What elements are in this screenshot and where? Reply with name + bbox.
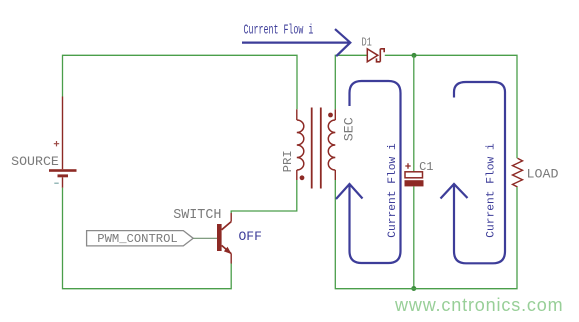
current loop 1 <box>336 81 401 263</box>
svg-text:OFF: OFF <box>238 229 261 244</box>
wire load bottom to secondary bottom <box>335 180 517 289</box>
svg-text:D1: D1 <box>362 36 372 50</box>
wire battery top to transformer primary <box>63 55 298 109</box>
current flow arrow top <box>242 29 350 56</box>
wire battery bottom to switch emitter <box>63 188 232 289</box>
junction bottom <box>411 286 416 291</box>
current loop 2 <box>441 82 506 263</box>
wire C1 bottom <box>413 186 415 288</box>
transformer T1 <box>297 108 336 189</box>
wire diode cathode to load top <box>385 55 517 158</box>
wire collector to transformer primary bottom <box>231 180 297 213</box>
wire C1 branch top <box>413 55 415 171</box>
wire secondary top to diode anode <box>335 55 367 109</box>
junction top <box>412 53 417 58</box>
svg-text:C1: C1 <box>419 160 433 174</box>
svg-text:Current Flow i: Current Flow i <box>387 143 399 238</box>
svg-text:SOURCE: SOURCE <box>11 154 59 169</box>
capacitor C1 <box>405 163 424 186</box>
resistor LOAD <box>513 158 523 187</box>
svg-text:PRI: PRI <box>281 150 295 172</box>
global label PWM_CONTROL <box>87 231 194 246</box>
svg-text:www.cntronics.com: www.cntronics.com <box>394 295 564 315</box>
battery BT1 <box>49 97 77 188</box>
transistor Q1 switch <box>217 213 232 264</box>
svg-text:Current Flow i: Current Flow i <box>244 24 314 38</box>
wire pwm label to transistor base <box>193 237 217 239</box>
svg-text:PWM_CONTROL: PWM_CONTROL <box>97 232 177 246</box>
svg-text:Current Flow i: Current Flow i <box>486 143 498 238</box>
svg-text:SEC: SEC <box>342 117 357 141</box>
diode D1 schottky <box>367 49 384 62</box>
svg-text:LOAD: LOAD <box>527 167 559 182</box>
svg-text:SWITCH: SWITCH <box>173 208 221 223</box>
